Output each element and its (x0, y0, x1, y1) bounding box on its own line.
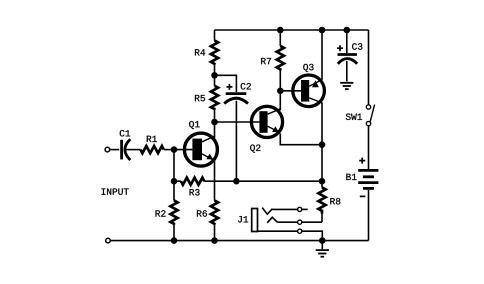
wire battery to bottom rail (368, 190, 370, 241)
node bottom rail R2 (171, 237, 178, 244)
node top rail R7 (277, 27, 284, 34)
wire Q1 base node down to R3 node (173, 150, 175, 182)
resistor R7 (261, 30, 284, 91)
node R3 left (171, 178, 178, 185)
capacitor C2 (224, 83, 251, 104)
transistor Q2 (250, 106, 282, 152)
resistor R8 (318, 181, 340, 222)
node bottom rail R6 (211, 237, 218, 244)
resistor R2 (156, 181, 178, 240)
node top rail C3 (344, 27, 351, 34)
wire bottom rail (110, 240, 368, 242)
battery B1 (346, 158, 378, 197)
wire R4/R5 node to C2 top (215, 75, 237, 92)
node Q1 base (171, 146, 178, 153)
terminal input bottom (106, 238, 111, 243)
wire C3 bottom to ground (346, 61, 348, 82)
wire C2 bottom lead down to R3 node (235, 101, 237, 181)
resistor R5 (195, 75, 218, 122)
capacitor C3 (337, 30, 362, 64)
ground main (316, 241, 329, 257)
capacitor C1 (120, 130, 141, 160)
wire Q3 collector down to R8 (321, 102, 323, 181)
wire Q3 emitter up to rail (321, 30, 323, 80)
node Q1 collector / R5 / Q2 base (211, 119, 218, 126)
wire R8 bottom to jack ring (302, 221, 322, 223)
switch SW1 (346, 105, 375, 126)
node ground junction (319, 237, 326, 244)
jack J1 (238, 207, 322, 240)
ground C3 (340, 83, 353, 89)
resistor R1 (141, 136, 175, 153)
wire Q1 collector up (214, 122, 216, 138)
wire Q1 base lead (174, 149, 192, 151)
resistor R6 (197, 201, 218, 241)
wire Q2 collector up to R7 node (279, 91, 281, 111)
wire Q3 base lead (280, 90, 301, 92)
INPUT label (102, 188, 129, 194)
node R4/R5 (211, 72, 218, 79)
resistor R3 (174, 178, 236, 196)
wire SW1 to battery (368, 126, 370, 169)
wire R3 node to R8 node (236, 180, 322, 182)
node R7 bottom / Q3 base (277, 88, 284, 95)
terminal input top (105, 147, 119, 152)
wire top rail right corner down to SW1 (368, 30, 370, 105)
wire top supply rail (215, 29, 369, 31)
node R8 top (319, 178, 326, 185)
node top rail Q3 (319, 27, 326, 34)
node C2 minus / R3 right (233, 178, 240, 185)
wire Q1 emitter down to R6 (214, 161, 216, 201)
wire Q2 base from collector node (215, 121, 260, 123)
wire Q2 emitter to R8 column (280, 134, 322, 145)
node Q2 emitter / Q3 collector (319, 141, 326, 148)
transistor Q3 (293, 64, 325, 107)
transistor Q1 (184, 121, 217, 166)
resistor R4 (195, 30, 218, 75)
